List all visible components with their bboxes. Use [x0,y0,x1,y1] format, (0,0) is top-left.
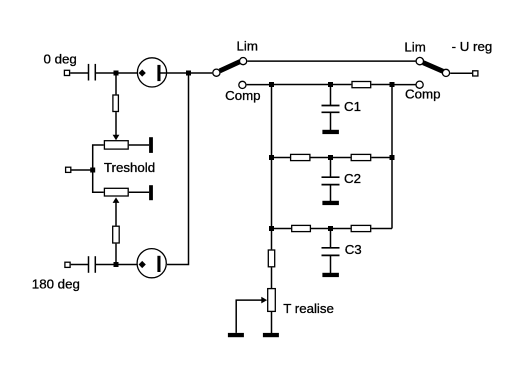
resistor R8 [268,250,274,267]
switch SW2 pole [442,69,449,76]
wire wiper arm to ground [236,300,262,333]
svg-text:180 deg: 180 deg [32,276,80,291]
capacitor coupling top (0 deg) [89,64,96,81]
wire pole to output terminal [450,72,472,74]
node J4 junction [114,262,119,267]
terminal 0 deg input [64,70,69,75]
wiper arrow into P3 [261,297,267,304]
resistor R5 [351,154,371,160]
resistor R2 [113,226,120,243]
node J7 junction [390,82,395,87]
node J9 junction [328,155,333,160]
svg-text:C2: C2 [344,171,361,186]
wire J7 to Comp contact [392,84,416,86]
switch SW1 Comp contact [239,81,246,88]
wire C2 to ground [330,185,332,201]
diode tube D2 [137,249,166,278]
ground bar under C1 [322,130,339,134]
switch SW1 pole [213,69,220,76]
wire P1 to ground bar B1 [129,144,149,146]
wire P2 to ground bar B2 [129,191,149,193]
potentiometer P3 T realise [268,289,276,312]
node J6 junction [328,82,333,87]
switch SW1 Lim contact [240,58,247,65]
svg-text:Lim: Lim [404,40,425,55]
wire R3 to J7 [371,84,392,86]
wire C3 to ground [330,256,332,273]
wire J1 down to R1 [115,73,117,94]
diode tube D1 [137,58,166,87]
node J11 junction [269,226,274,231]
wiper arrow into P2 [113,197,120,203]
svg-text:Comp: Comp [225,88,260,103]
wire row3 left [272,228,292,230]
node J2 junction [186,71,191,76]
wire J2 down to D2 output [167,73,189,265]
wire J3 to Treshold terminal [71,169,92,171]
svg-text:Lim: Lim [237,39,258,54]
node J8 junction [269,155,274,160]
wire J12 down to C3 [330,229,332,248]
node J3 junction [90,168,95,173]
wire capacitor to node J1 [96,72,141,74]
ground bar wiper [228,333,244,337]
resistor R4 [291,154,310,160]
svg-text:Treshold: Treshold [104,160,155,175]
node J10 junction [390,155,395,160]
wire Comp contact to ladder [247,84,272,86]
capacitor C3 [322,248,340,256]
wire J6 down to C1 [330,85,332,106]
wire arrow to R2 [115,202,117,226]
capacitor C2 [322,177,340,184]
wire C1 to ground [330,113,332,130]
wire R4 to J9 [311,157,351,159]
wire R6 to J12 [311,228,351,230]
wire J9 down to C2 [330,158,332,177]
switch SW2 Lim contact [416,57,423,64]
wire P3 to ground [271,312,273,333]
wire capacitor to diode D2 [96,264,141,266]
wire R8 to P3 [271,267,273,288]
resistor R3 [352,82,371,88]
potentiometer P1 Treshold [104,141,128,149]
ground bar B2 [149,185,153,200]
wire D1 to switch pole [161,72,213,74]
resistor R1 [113,95,119,112]
svg-text:- U reg: - U reg [452,39,493,54]
wire terminal to capacitor [71,264,88,266]
ground bar B1 [149,137,153,153]
switch SW2 blade [423,63,443,72]
ground bar under C2 [322,201,339,205]
wiper arrow into P1 [113,135,120,141]
wire row2 left [272,157,291,159]
wire right rail [391,85,393,229]
terminal 180 deg input [65,262,70,267]
capacitor C1 [322,106,340,113]
node J5 junction [269,82,274,87]
resistor R7 [351,225,371,231]
wire R5 to J10 [371,157,392,159]
svg-text:T realise: T realise [283,301,334,316]
terminal Treshold input [66,167,71,172]
ground bar under C3 [322,273,339,277]
svg-text:C1: C1 [344,99,361,114]
switch SW2 Comp contact [416,81,423,88]
node J1 junction [114,71,119,76]
switch SW1 blade [220,62,240,71]
wire Lim bus [247,60,415,62]
potentiometer P2 Treshold [104,188,128,196]
svg-text:Comp: Comp [405,86,440,101]
svg-text:0 deg: 0 deg [44,51,77,66]
wire left rail [271,85,273,229]
wire ladder row1 [272,84,352,86]
capacitor coupling bottom (180 deg) [89,256,96,273]
terminal -U reg output [473,71,478,76]
wire J11 down to R8 [271,229,273,250]
wire R1 to wiper arrow [115,112,117,136]
wire R7 to right rail corner [371,228,392,230]
node J12 junction [328,226,333,231]
wire terminal to capacitor [70,72,88,74]
wire R2 to node J4 [115,244,117,265]
wire P1 left side down to P2 [93,145,104,192]
ground bar under P3 [263,333,279,337]
resistor R6 [292,225,311,231]
svg-text:C3: C3 [345,242,362,257]
